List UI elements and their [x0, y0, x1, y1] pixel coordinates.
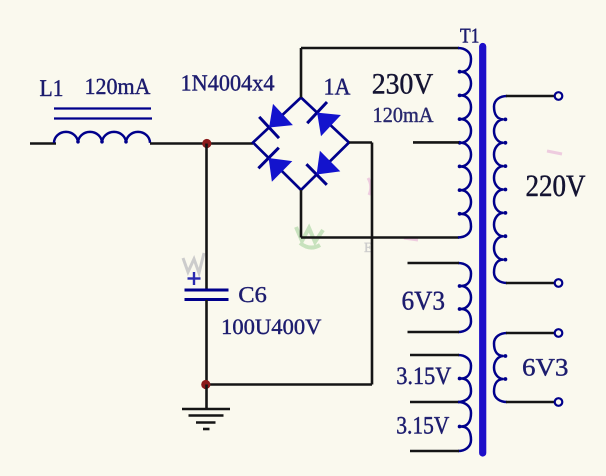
inductor L1 — [54, 132, 150, 143]
label 6V3 right — [523, 359, 567, 376]
label 3.15V upper — [397, 367, 451, 384]
wire top rail to 230V winding — [301, 47, 459, 50]
wire L1 to bridge left vertex — [150, 142, 253, 145]
wire bridge top vertex up — [300, 48, 303, 98]
wire 3.15V bottom lead — [410, 450, 459, 453]
transformer 6V3 right winding — [494, 333, 507, 402]
label 1N4004x4 — [183, 75, 275, 91]
label L1 — [40, 80, 62, 96]
transformer 3.15V winding upper — [458, 355, 471, 402]
transformer 6V3 left winding — [458, 263, 471, 332]
transformer T1 core — [479, 47, 486, 454]
wire DC- bottom to ground node — [207, 383, 373, 386]
wire 6V3 left bottom lead — [408, 331, 460, 334]
terminal 220V top — [555, 92, 563, 100]
label 100U400V — [223, 319, 321, 334]
label 6V3 left — [403, 292, 444, 310]
wire 6V3 right top lead — [506, 332, 555, 335]
wire node to C6 top plate — [205, 144, 208, 290]
terminal 220V bottom — [555, 279, 563, 287]
wire 230V center tap stub — [413, 141, 459, 144]
diode D4 bottom-right (cathode at bottom vertex) — [306, 151, 340, 185]
watermark pink smudges — [368, 151, 562, 240]
label T1 — [460, 29, 478, 43]
diode D1 top-left (cathode at left vertex) — [259, 104, 293, 138]
wire 220V bottom lead — [506, 282, 555, 285]
label 3.15V lower — [397, 417, 449, 434]
watermark grey W — [183, 253, 204, 273]
watermark grey E — [364, 243, 372, 252]
wire DC- vertical — [371, 143, 374, 385]
bridge rectifier diamond — [253, 98, 349, 191]
capacitor C6 polarity + — [188, 272, 201, 285]
wire bridge bottom vertex down — [300, 190, 303, 238]
capacitor C6 plates — [185, 290, 229, 300]
wire bridge right vertex to corner — [349, 141, 372, 144]
diode D3 bottom-left (cathode at left vertex) — [258, 148, 292, 182]
wire 6V3 left top lead — [408, 262, 460, 265]
wire 3.15V middle lead — [410, 401, 459, 404]
wire C6 bottom plate to ground node — [205, 300, 208, 385]
label 1A — [325, 79, 350, 95]
label 120mA of winding — [374, 108, 433, 123]
node DC+ junction dot — [202, 139, 211, 148]
inductor L1 core lines — [54, 107, 151, 109]
label 230V — [373, 74, 433, 94]
label 120mA of L1 — [86, 79, 150, 95]
terminal 6V3 top — [555, 329, 563, 337]
transformer 230V primary winding — [458, 48, 471, 238]
ground symbol — [182, 385, 230, 430]
wire bottom rail to 230V winding bottom — [301, 236, 459, 239]
label C6 — [239, 287, 266, 302]
wire 6V3 right bottom lead — [506, 401, 555, 404]
transformer 220V secondary winding — [494, 96, 507, 283]
label 220V — [527, 175, 586, 196]
node ground junction dot — [201, 380, 210, 389]
wire 220V top lead — [506, 95, 555, 98]
transformer 3.15V winding lower — [458, 402, 471, 451]
terminal 6V3 bottom — [555, 398, 563, 406]
wire 3.15V top lead — [410, 354, 459, 357]
watermark green smudge — [296, 227, 323, 248]
diode D2 top-right (cathode at top vertex) — [307, 102, 341, 136]
wire AC input from left edge — [30, 142, 56, 145]
